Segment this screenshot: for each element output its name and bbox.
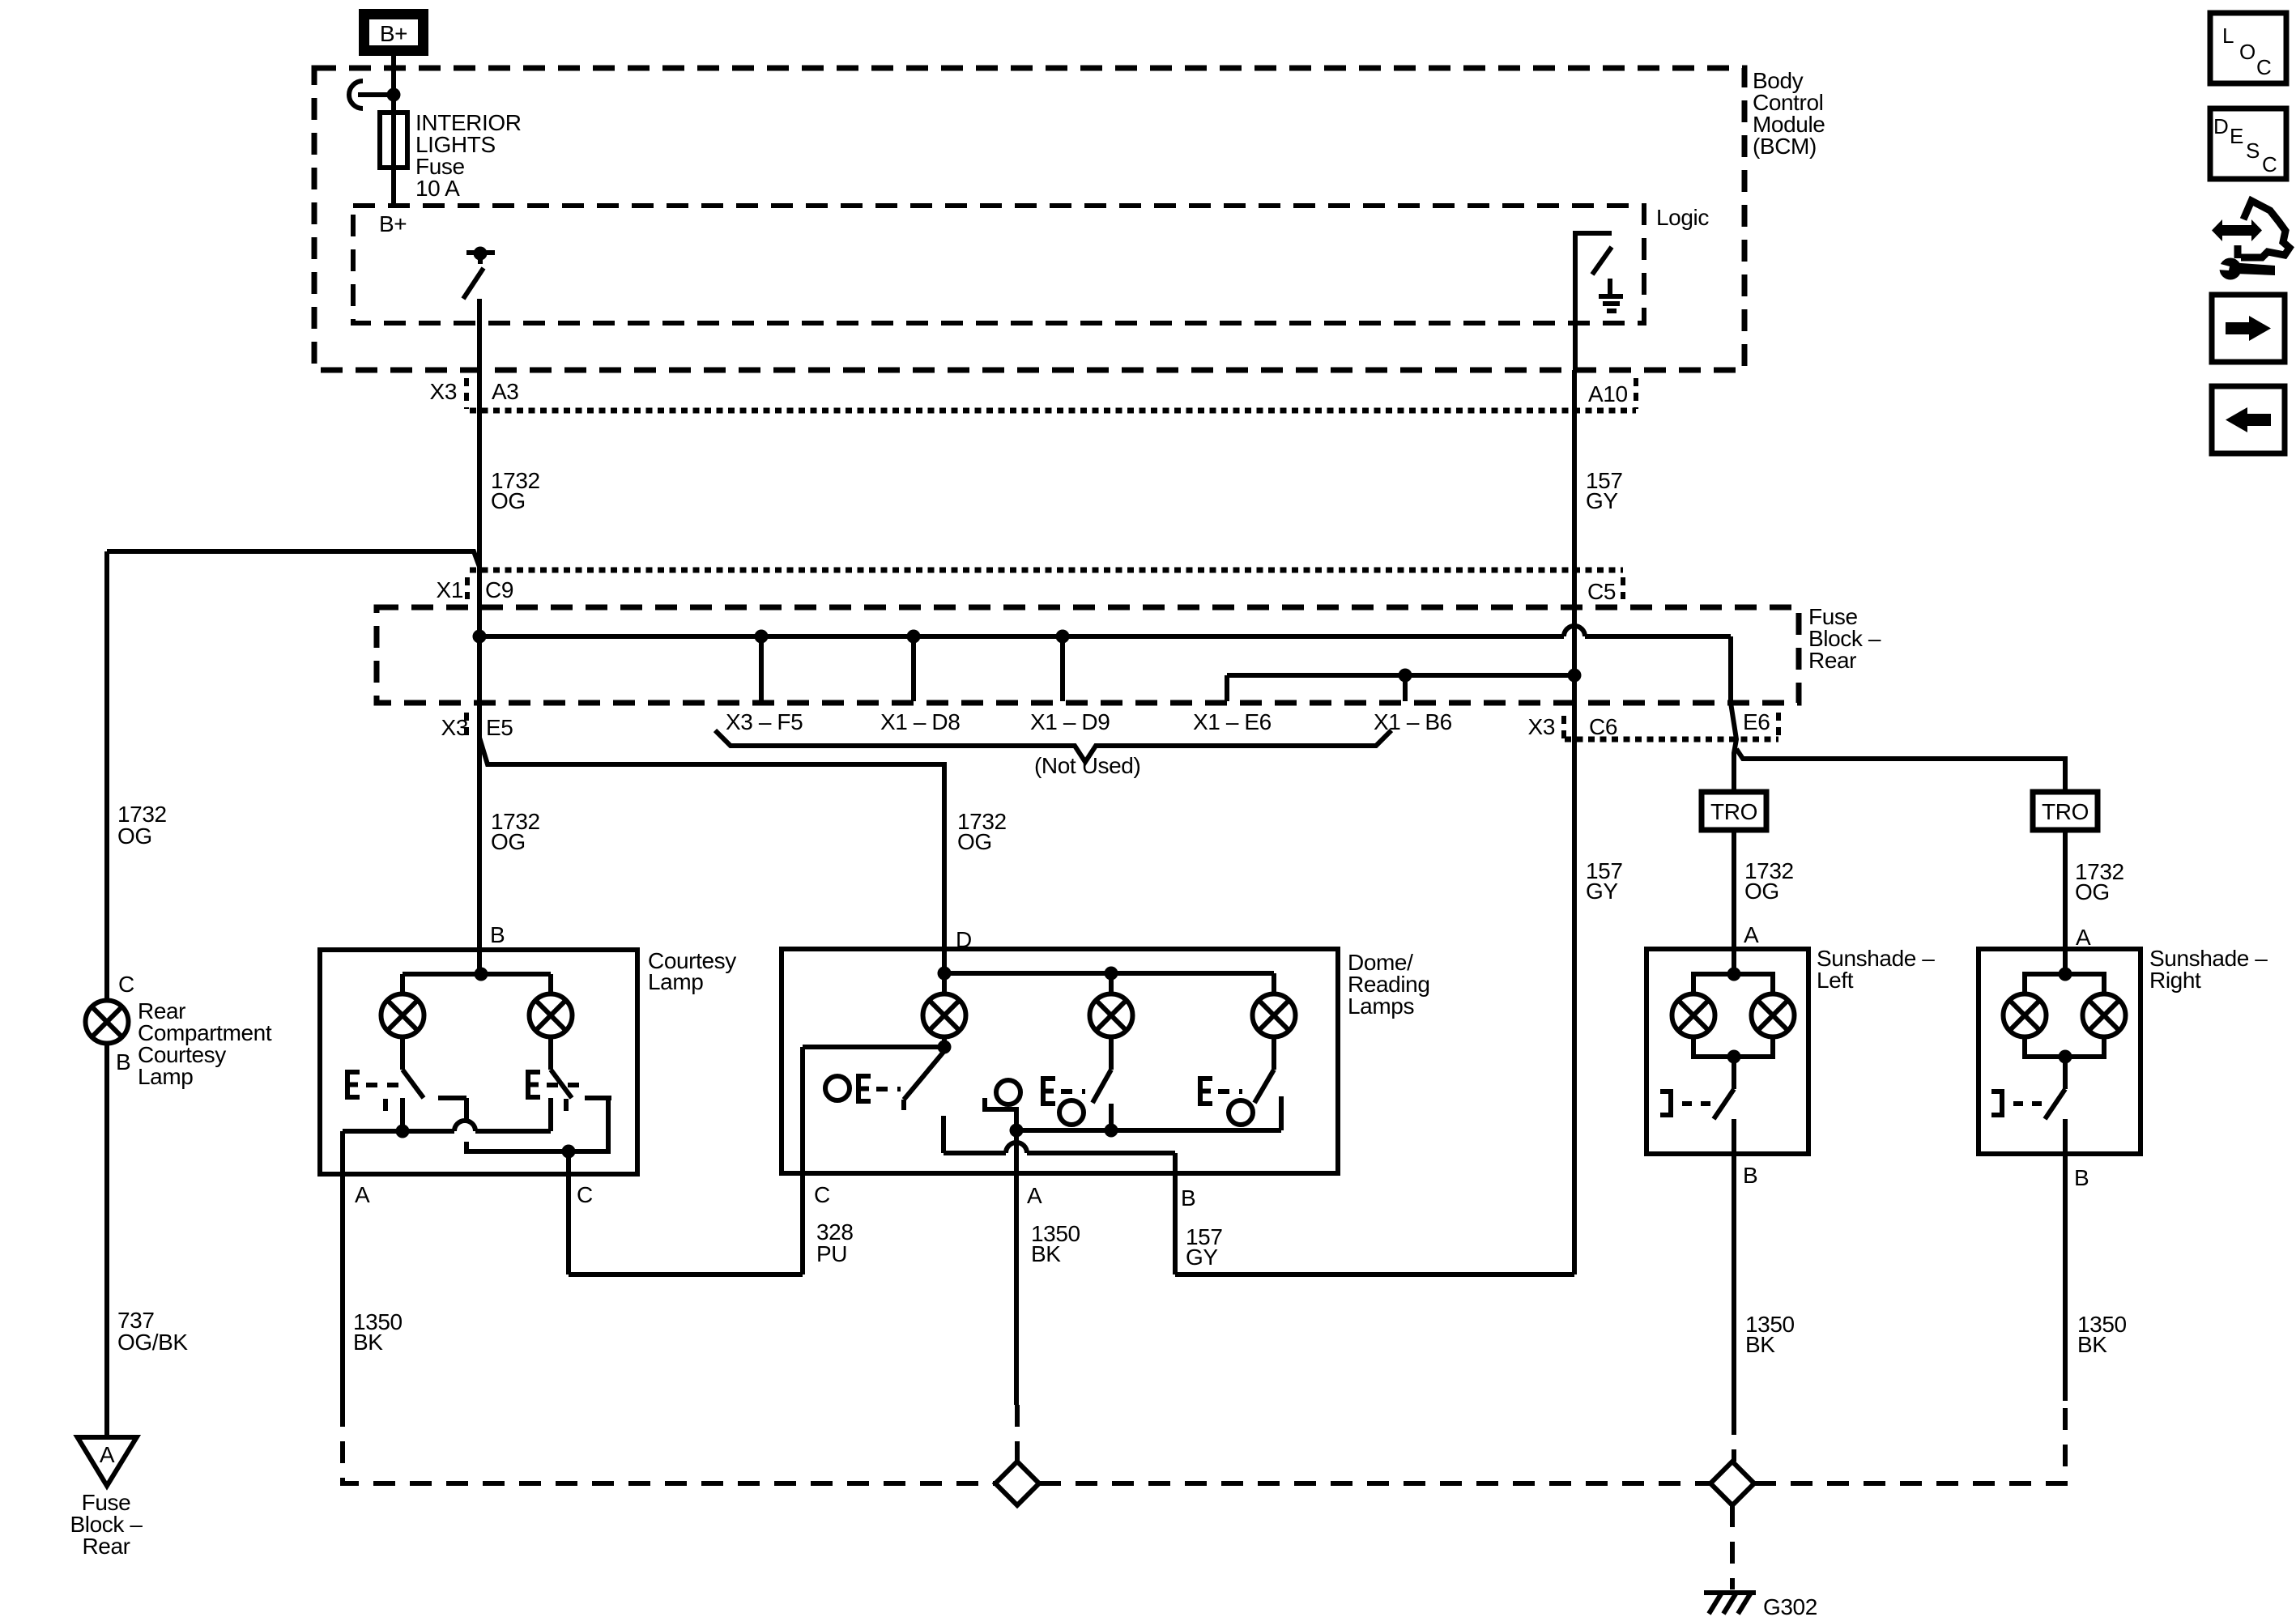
dome lamp 3 feed — [1272, 973, 1276, 994]
dome switch 3 symbols — [1200, 1079, 1253, 1125]
pin label D (Dome Lamps) — [956, 927, 972, 952]
wire 157 GY C5 through fuse block to Dome B — [1175, 570, 1574, 1274]
svg-text:X1 – D9: X1 – D9 — [1030, 709, 1110, 734]
dome switch 2 left contact to A rail — [985, 1098, 1016, 1130]
svg-text:B+: B+ — [379, 211, 407, 236]
courtesy switch 1 common to A rail — [400, 1098, 405, 1131]
svg-text:A: A — [355, 1182, 370, 1207]
pin labels X3-F5 X1-D8 X1-D9 X1-E6 X1-B6 — [726, 709, 1452, 734]
fuse clip hook symbol — [349, 81, 401, 109]
svg-text:Logic: Logic — [1656, 205, 1709, 230]
wire courtesy pin C (328 PU) — [566, 1151, 571, 1274]
dome lamp 2 — [1090, 994, 1133, 1037]
Courtesy Lamp box — [320, 950, 637, 1174]
dashed drop to ground G302 — [1730, 1505, 1735, 1589]
svg-text:L: L — [2222, 23, 2234, 48]
wire 737/1732 OG down left side — [104, 551, 109, 1001]
dome B net (override contact to pin B) with hop — [944, 1116, 1175, 1173]
label Fuse Block - Rear (bottom left) — [70, 1490, 143, 1559]
svg-text:B+: B+ — [380, 21, 407, 46]
wire ground switch to pin A10 (inside BCM) — [1573, 323, 1578, 370]
svg-text:OG: OG — [2075, 879, 2110, 904]
svg-text:A: A — [2076, 925, 2091, 950]
label 1732 OG (Sunshade Right) — [2075, 859, 2124, 904]
connector row dotted line (C6-E6) — [1565, 737, 1778, 743]
junction dot bus2 on 157 GY wire — [1568, 669, 1582, 683]
svg-text:OG: OG — [1744, 879, 1779, 904]
label 1350 BK (dome) — [1031, 1221, 1080, 1266]
sunshade left switch lower terminal — [1732, 1119, 1736, 1154]
svg-text:X1 – B6: X1 – B6 — [1374, 709, 1452, 734]
sunshade right feed rail — [2025, 968, 2104, 995]
label Rear Compartment Courtesy Lamp — [138, 998, 272, 1089]
sunshade right bottom rail — [2025, 1036, 2104, 1064]
connector X3|C6 separator — [1561, 716, 1566, 739]
connector X1|C9 separator — [465, 577, 470, 599]
svg-text:Rear: Rear — [1808, 648, 1856, 673]
connector X3|A3 separator — [464, 378, 469, 409]
sunshade right switch lower terminal — [2063, 1119, 2068, 1154]
svg-text:C5: C5 — [1587, 579, 1616, 604]
wire 1732 OG E5 to Courtesy Lamp B — [477, 570, 482, 974]
wire sunshade right pin B (1350 BK) — [2063, 1154, 2068, 1401]
pin label C (rear lamp) — [118, 972, 134, 997]
stub wire to X3-F5 — [759, 636, 764, 701]
sunshade left feed rail — [1693, 968, 1773, 995]
svg-text:C9: C9 — [485, 577, 513, 602]
connector C5 separator — [1621, 577, 1625, 599]
TRO box left — [1702, 792, 1766, 830]
courtesy switch 1 blade — [403, 1036, 424, 1098]
pin label A10 — [1588, 381, 1628, 406]
svg-text:C: C — [814, 1182, 830, 1207]
courtesy lamp 1 feed — [400, 974, 405, 994]
svg-text:C6: C6 — [1589, 714, 1617, 739]
svg-text:OG: OG — [117, 823, 152, 849]
BCM internal ground switch — [1575, 233, 1612, 323]
dome lamp 2 feed — [1109, 973, 1114, 994]
pin label A3 — [492, 379, 518, 404]
pin label A (Sunshade Right) — [2076, 925, 2091, 950]
BCM outer dashed box — [314, 68, 1744, 370]
icon back arrow box — [2212, 386, 2285, 453]
sunshade left bottom rail — [1693, 1036, 1773, 1064]
courtesy A rail with hop — [343, 1121, 551, 1138]
svg-text:Rear: Rear — [82, 1534, 130, 1559]
dome switch 3 contact to A rail — [1279, 1096, 1284, 1130]
svg-text:GY: GY — [1186, 1245, 1218, 1270]
svg-text:D: D — [2213, 114, 2228, 138]
svg-text:(BCM): (BCM) — [1753, 134, 1817, 159]
label Dome/Reading Lamps — [1348, 950, 1430, 1019]
courtesy switch 2 contact — [585, 1096, 611, 1100]
label G302 — [1763, 1594, 1817, 1617]
svg-text:OG: OG — [957, 829, 992, 854]
label Sunshade - Left — [1817, 946, 1935, 993]
pin label C5 — [1587, 579, 1616, 604]
brace (Not Used) — [715, 730, 1391, 762]
pin label X1 — [437, 577, 463, 602]
dome switch 1 blade — [904, 1051, 944, 1110]
pin label A (courtesy) — [355, 1182, 370, 1207]
splice diamond (1350 BK) — [995, 1462, 1039, 1505]
pin label X3 (C6 row) — [1528, 714, 1555, 739]
label 328 PU — [816, 1219, 854, 1266]
BCM internal switch (lamp control) — [463, 247, 495, 300]
dome lamp1 to C junction — [803, 1036, 952, 1054]
courtesy switch 1 contact — [438, 1096, 466, 1100]
pin label E5 — [486, 715, 513, 740]
dome switch 2 right contact — [1109, 1104, 1114, 1130]
pin label C (courtesy) — [577, 1182, 593, 1207]
label 1732 OG (Sunshade Left) — [1744, 858, 1794, 904]
courtesy switch 2 common to A rail — [548, 1098, 553, 1131]
svg-text:B: B — [1743, 1163, 1757, 1188]
junction dot X1-D8 — [907, 630, 921, 644]
sunshade left switch blade — [1714, 1057, 1734, 1119]
fuse INTERIOR LIGHTS 10 A — [380, 113, 407, 168]
label 1350 BK (courtesy) — [353, 1309, 403, 1355]
svg-text:10 A: 10 A — [415, 176, 460, 201]
wire 328 PU courtesy C to dome C — [569, 1047, 803, 1274]
sunshade right switch blade — [2045, 1057, 2065, 1119]
wire 737 OG/BK rear lamp to fuse block — [104, 1044, 109, 1437]
svg-text:O: O — [2239, 40, 2256, 64]
stub wire to X1-D8 — [911, 636, 916, 701]
dome A rail — [1010, 1124, 1282, 1138]
dome lamp 3 — [1253, 994, 1296, 1037]
ground symbol G302 — [1704, 1593, 1756, 1614]
branch wire to Rear Compartment Courtesy Lamp — [107, 551, 479, 567]
svg-text:E5: E5 — [486, 715, 513, 740]
branch wire 1732 OG to Dome/Reading Lamps D — [479, 738, 944, 973]
stub wire to X1-B6 — [1403, 675, 1408, 701]
label Courtesy Lamp — [648, 948, 736, 994]
courtesy C net (contacts to C pin) — [466, 1098, 608, 1159]
courtesy switch 2 door symbol — [528, 1072, 581, 1111]
Fuse Block - Rear dashed box — [377, 607, 1799, 703]
wire TRO left to Sunshade Left A — [1732, 830, 1736, 974]
svg-text:X3: X3 — [1528, 714, 1555, 739]
sunshade left switch symbol — [1660, 1091, 1711, 1115]
pin label B (Courtesy Lamp) — [490, 922, 505, 947]
svg-text:TRO: TRO — [1710, 799, 1757, 824]
svg-text:C: C — [2262, 152, 2277, 177]
pin label A (Sunshade Left) — [1744, 922, 1759, 947]
label Body Control Module (BCM) — [1753, 68, 1825, 159]
junction dot C9 bus — [473, 630, 487, 644]
svg-text:TRO: TRO — [2042, 799, 2089, 824]
svg-text:X1 – E6: X1 – E6 — [1193, 709, 1272, 734]
label 1350 BK (sunshade right) — [2077, 1312, 2127, 1357]
pin label C9 — [485, 577, 513, 602]
courtesy lamp 2 — [530, 994, 573, 1037]
ground bus dashed (courtesy A to splice) — [343, 1405, 995, 1483]
icon DESC box — [2210, 109, 2286, 179]
pin label B (sunshade right) — [2074, 1165, 2089, 1190]
svg-text:Lamp: Lamp — [138, 1064, 193, 1089]
wire B+ to BCM (battery positive) — [391, 56, 396, 206]
connector A10 separator — [1634, 378, 1638, 409]
label 157 GY (dome B) — [1186, 1224, 1223, 1270]
pin label B (rear lamp) — [116, 1049, 130, 1074]
connector row dotted line (BCM X3) — [470, 408, 1636, 414]
wire switch to pin A3 (inside BCM) — [477, 299, 482, 370]
courtesy lamp 1 — [381, 994, 424, 1037]
Dome/Reading Lamps box — [782, 949, 1338, 1173]
dome switch 1 symbols — [825, 1076, 901, 1101]
label (Not Used) — [1034, 753, 1140, 778]
svg-text:Lamp: Lamp — [648, 969, 703, 994]
stub wire to X1-D9 — [1060, 636, 1065, 701]
ground symbol (BCM logic ground) — [1599, 279, 1623, 311]
pin label B (dome) — [1181, 1185, 1195, 1211]
svg-text:C: C — [118, 972, 134, 997]
svg-text:X3: X3 — [441, 715, 468, 740]
svg-text:A: A — [1027, 1183, 1042, 1208]
label Logic — [1656, 205, 1709, 230]
wire TRO right to Sunshade Right A — [2063, 830, 2068, 974]
pin label E6 — [1743, 709, 1770, 734]
svg-text:GY: GY — [1586, 488, 1618, 513]
lamp Rear Compartment Courtesy Lamp — [86, 1001, 129, 1044]
dome switch 3 blade — [1254, 1036, 1274, 1103]
junction dot X1-D9 — [1056, 630, 1070, 644]
pin label X3 (A3 row) — [430, 379, 457, 404]
fuse block bus (C9 to E6) with hop over 157 GY wire — [479, 626, 1731, 636]
courtesy switch 2 blade — [551, 1036, 572, 1098]
bus2 X1-E6/X1-B6 to 157 GY wire — [1227, 673, 1574, 678]
courtesy lamp 2 feed — [548, 974, 553, 994]
svg-text:X3: X3 — [430, 379, 457, 404]
svg-text:BK: BK — [1745, 1332, 1775, 1357]
svg-text:PU: PU — [816, 1241, 847, 1266]
svg-text:E: E — [2230, 124, 2243, 148]
connector E6 separator — [1776, 713, 1781, 739]
svg-text:B: B — [490, 922, 505, 947]
fuse label INTERIOR LIGHTS Fuse 10 A — [415, 110, 522, 201]
dome lamp 1 — [923, 994, 966, 1037]
svg-text:BK: BK — [2077, 1332, 2107, 1357]
dome switch 2 blade — [1093, 1036, 1111, 1103]
wire 157 GY A10 to C5 — [1572, 370, 1577, 570]
svg-text:A: A — [100, 1442, 115, 1467]
icon car door with arrow and wrench — [2212, 201, 2290, 280]
BCM Logic dashed box — [353, 206, 1644, 323]
svg-text:A10: A10 — [1588, 381, 1628, 406]
label 157 GY (A10-C5) — [1586, 468, 1623, 513]
TRO box right — [2033, 792, 2098, 830]
dashed riser dome A to splice — [1015, 1405, 1020, 1462]
label 737 OG/BK — [117, 1308, 188, 1355]
dome feed rail — [938, 967, 1275, 981]
svg-text:GY: GY — [1586, 879, 1618, 904]
svg-text:B: B — [116, 1049, 130, 1074]
svg-text:A: A — [1744, 922, 1759, 947]
sunshade left lamp 1 — [1672, 994, 1715, 1037]
svg-text:G302: G302 — [1763, 1594, 1817, 1617]
node B+ label inside Logic — [379, 211, 407, 236]
Sunshade Right box — [1979, 949, 2141, 1154]
courtesy internal feed rail — [403, 968, 551, 981]
svg-text:X3 – F5: X3 – F5 — [726, 709, 803, 734]
wire 1732 OG E6 to TRO left — [1731, 636, 1736, 792]
svg-text:Right: Right — [2149, 968, 2201, 993]
label 1732 OG (A3-C9) — [491, 468, 540, 513]
svg-text:OG: OG — [491, 488, 526, 513]
wire 1732 OG pin A3 to fuse block C9 — [477, 370, 482, 570]
svg-text:X1: X1 — [437, 577, 463, 602]
wire courtesy pin A (1350 BK) — [340, 1131, 345, 1405]
wire dome pin A (1350 BK) — [1014, 1130, 1019, 1405]
label 1732 OG (E5-Courtesy) — [491, 809, 540, 854]
junction dot X3-F5 — [755, 630, 769, 644]
ground bus dashed (splice to splice G302) — [1039, 1481, 1710, 1486]
icon LOC box — [2210, 13, 2286, 83]
wire sunshade left pin B (1350 BK) — [1732, 1154, 1736, 1413]
icon forward arrow box — [2212, 295, 2285, 362]
svg-text:X1 – D8: X1 – D8 — [880, 709, 960, 734]
sunshade right switch symbol — [1991, 1091, 2043, 1115]
ground bus dashed (splice to sunshade right) — [1754, 1401, 2065, 1483]
sunshade right lamp 2 — [2083, 994, 2126, 1037]
svg-text:OG: OG — [491, 829, 526, 854]
sunshade right lamp 1 — [2004, 994, 2047, 1037]
svg-text:(Not Used): (Not Used) — [1034, 753, 1140, 778]
svg-text:B: B — [2074, 1165, 2089, 1190]
Sunshade Left box — [1646, 949, 1808, 1154]
off-page connector A (Fuse Block - Rear) — [78, 1437, 137, 1486]
svg-text:OG/BK: OG/BK — [117, 1330, 188, 1355]
sunshade left lamp 2 — [1752, 994, 1795, 1037]
branch wire 1732 OG to Sunshade Right — [1736, 749, 2065, 792]
svg-text:BK: BK — [353, 1330, 383, 1355]
pin label B (sunshade left) — [1743, 1163, 1757, 1188]
pin label C6 — [1589, 714, 1617, 739]
dome lamp 1 feed — [942, 973, 947, 994]
svg-text:A3: A3 — [492, 379, 518, 404]
svg-text:C: C — [2256, 55, 2271, 79]
power feed B+ terminal box — [359, 9, 428, 56]
svg-text:BK: BK — [1031, 1241, 1061, 1266]
junction dot X1-B6 — [1399, 669, 1412, 683]
label 1732 OG (left branch) — [117, 802, 167, 849]
pin label A (dome) — [1027, 1183, 1042, 1208]
svg-text:Lamps: Lamps — [1348, 994, 1414, 1019]
pin label C (dome) — [814, 1182, 830, 1207]
courtesy switch 1 door symbol — [347, 1072, 401, 1111]
svg-text:S: S — [2246, 138, 2260, 163]
label Sunshade - Right — [2149, 946, 2268, 993]
label 1732 OG (Dome branch) — [957, 809, 1007, 854]
dashed riser sunshade left B to splice — [1732, 1413, 1736, 1462]
svg-text:Left: Left — [1817, 968, 1854, 993]
svg-text:E6: E6 — [1743, 709, 1770, 734]
label Fuse Block - Rear — [1808, 604, 1881, 673]
label 157 GY (C6-Dome) — [1586, 858, 1623, 904]
pin label X3 (E5 row) — [441, 715, 468, 740]
splice diamond at G302 — [1710, 1462, 1754, 1505]
svg-text:B: B — [1181, 1185, 1195, 1211]
dome switch 2 symbols — [996, 1079, 1085, 1125]
connector row dotted line (X1|C9 - C5) — [470, 568, 1623, 573]
stub wire to X1-E6 — [1225, 675, 1229, 701]
connector X3|E5 separator — [464, 713, 469, 738]
label 1350 BK (sunshade left) — [1745, 1312, 1795, 1357]
svg-text:C: C — [577, 1182, 593, 1207]
